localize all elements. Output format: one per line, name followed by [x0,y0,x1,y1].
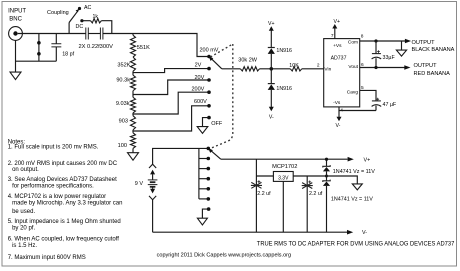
label R2 551K [137,45,150,51]
svg-text:6. When AC coupled, low freque: 6. When AC coupled, low frequency cutoff [8,236,120,242]
pin number 5 [361,85,364,91]
svg-text:OUTPUT: OUTPUT [412,40,436,46]
label Z1 1N4741 Vz 11V [333,169,375,175]
label D1 1N916 [276,48,292,54]
zener Z1 1N4741 [323,165,330,181]
svg-text:+Vs: +Vs [333,43,342,49]
svg-text:-Vs: -Vs [333,100,341,106]
svg-text:90.3k: 90.3k [116,78,130,84]
svg-text:3. See Analog Devices AD737 Da: 3. See Analog Devices AD737 Datasheet [8,177,117,183]
label C7 2.2 uf [309,191,323,197]
label R5 9.03k [116,101,130,107]
svg-text:V+: V+ [364,158,371,164]
label C6 2.2 uf [257,191,271,197]
label U2 3.3V [278,175,289,181]
svg-text:is 1.5 Hz.: is 1.5 Hz. [12,243,37,249]
notes text block [8,139,123,261]
svg-text:V+: V+ [268,21,275,27]
pin number 8 [361,34,364,40]
pin number 6 [361,62,364,68]
contact 2V [207,67,211,71]
label OUTPUT BLACK [412,40,455,53]
connector J1 BNC [9,27,23,41]
wire OFF to ground [203,118,210,127]
wire stub S2b 3 [199,167,210,171]
resistor R8 30k 2W [240,67,259,71]
switch S2b arm [208,148,221,159]
wire 30k to junction [260,68,291,70]
svg-text:551K: 551K [137,45,150,51]
wire pin8 COM out [360,40,406,42]
resistor R4 90.3k [131,73,136,91]
wire stub S2b 5 [199,187,210,191]
svg-text:BNC: BNC [9,16,22,22]
ground divider [128,153,139,161]
capacitor C6 2.2uf input [251,180,262,188]
label V- rail [362,230,367,236]
svg-text:Com: Com [348,40,358,46]
svg-text:1N916: 1N916 [276,48,292,54]
svg-text:6: 6 [361,62,364,68]
label R4 90.3k [116,78,130,84]
resistor R7 100 [131,131,136,148]
label pin -Vs [333,100,341,106]
pin number 7 [331,33,334,39]
junction dot rail zener [325,158,328,161]
svg-text:9 V: 9 V [135,181,144,187]
svg-text:Vin: Vin [324,67,331,73]
wire stub S2b 2 [199,157,210,161]
switch S1a pivot wire [68,23,70,34]
wire vertical with junctions [38,34,40,62]
svg-text:10K: 10K [289,63,299,69]
svg-text:200V: 200V [192,87,205,93]
svg-text:100: 100 [118,143,127,149]
label DC [76,24,84,30]
arrow black banana [405,39,411,44]
junction dot B [37,52,41,56]
svg-text:1. Full scale input is 200 mv: 1. Full scale input is 200 mv RMS. [8,145,99,151]
wire regulator input branch [256,175,273,177]
label AC [84,5,92,11]
switch S1a arm [69,9,79,23]
svg-text:V+: V+ [334,19,341,25]
node tap 600V wire [133,106,209,131]
svg-text:2X 0.22f300V: 2X 0.22f300V [79,44,114,50]
wire output cap drop [306,176,308,232]
wire V+ rail [221,158,348,160]
node tap 20V wire [133,80,209,95]
svg-text:BLACK BANANA: BLACK BANANA [412,47,455,53]
contact S2b OFF [207,207,211,211]
svg-text:2: 2 [317,62,320,68]
label C1 18 pf [62,52,74,58]
svg-text:30k 2W: 30k 2W [238,58,257,64]
wire main to divider and 200mV [103,34,209,57]
svg-text:1k: 1k [93,14,99,20]
svg-text:18 pf: 18 pf [62,52,74,58]
svg-text:MCP1702: MCP1702 [272,164,297,170]
label pin Vin [324,67,331,73]
wire pin6 Vout out [360,67,405,69]
ground output COM [396,41,406,56]
svg-text:V-: V- [269,114,274,120]
wire zener column top [326,159,328,166]
node tap 200V wire [133,92,209,114]
label C5 47uF [383,102,397,108]
op-amp U1 AD737 body [324,39,360,107]
wire stub S2b 6 [199,197,210,201]
svg-text:AC: AC [84,5,92,11]
wire battery top rail [153,148,209,164]
wire regulator gnd pin [282,181,284,232]
wire pin4 -Vs [339,107,376,111]
svg-text:9.03k: 9.03k [116,101,130,107]
junction dot zener mid [325,175,328,178]
svg-text:8: 8 [361,34,364,40]
svg-text:352K: 352K [117,62,130,68]
svg-text:20V: 20V [195,75,205,81]
junction dot Vout cap [374,66,377,69]
svg-text:made by Microchip. Any 3.3 reg: made by Microchip. Any 3.3 regulator can [12,200,122,206]
svg-text:2.2 uf: 2.2 uf [309,191,323,197]
capacitor C4 33uF [372,41,382,68]
label 20V [195,75,205,81]
label R1 1k [93,14,99,20]
svg-text:DC: DC [76,24,84,30]
svg-text:copyright 2011 Dick Cappels w: copyright 2011 Dick Cappels www.projects… [157,253,292,259]
arrow V- rail [347,230,353,235]
wire BNC to coupling [18,33,86,35]
wire pin5 Cavg [360,90,376,101]
label Z2 1N4741 Vz 11V [331,196,373,202]
label 2V [195,63,202,69]
svg-text:V-: V- [362,230,367,236]
label V- clamp [269,114,274,120]
diode D2 1N916 [268,69,275,90]
label U2 MCP1702 [272,164,297,170]
caption title [257,240,455,247]
svg-text:903: 903 [119,119,128,125]
resistor R1 1k [91,19,102,23]
resistor R3 352K [131,57,136,71]
label OFF [211,121,223,127]
contact 200V [207,90,211,94]
svg-text:4. MCP1702 is a low power regu: 4. MCP1702 is a low power regulator [8,194,106,200]
svg-text:V-: V- [336,123,341,129]
wire pin4 V- arrow [337,111,342,122]
pin number 4 [340,108,343,114]
capacitor C7 2.2uf output [302,181,313,189]
capacitor C5 47uF [372,98,382,111]
wire V- rail [153,231,347,233]
svg-text:Cavg: Cavg [347,90,359,96]
switch S2b bus [198,148,200,199]
svg-text:200 mV: 200 mV [200,48,219,54]
contact 600V [207,104,211,108]
label R7 100 [118,143,127,149]
svg-text:on output.: on output. [12,167,39,173]
svg-text:3.3V: 3.3V [278,175,289,181]
label pin +Vs [333,43,342,49]
switch S2a arm [209,56,222,69]
svg-text:for performance specifications: for performance specifications. [12,184,94,190]
wire arm to 30k [222,68,241,70]
svg-text:5. Input impedance is 1 Meg Oh: 5. Input impedance is 1 Meg Ohm shunted [8,219,121,225]
junction dot A [37,41,41,45]
svg-text:be used.: be used. [12,209,35,215]
diode D1 1N916 [268,48,275,69]
ground S2b OFF [197,218,207,225]
label Coupling [47,10,69,16]
label C4 33uF [383,55,396,61]
label V+ pin7 [334,19,341,25]
label 200V [192,87,205,93]
label 200 mV [200,48,219,54]
svg-text:1N4741 Vz = 11V: 1N4741 Vz = 11V [333,169,375,175]
label C2 C3 2X 0.22f300V [79,44,114,50]
svg-text:33µF: 33µF [383,55,396,61]
label V- pin4 [336,123,341,129]
label V+ rail [364,158,371,164]
label pin Vout [348,64,358,70]
wire 10K to pin2 [302,68,324,70]
svg-text:AD737: AD737 [331,55,347,61]
svg-text:Vout: Vout [348,64,358,70]
svg-text:TRUE RMS TO DC ADAPTER FOR DVM: TRUE RMS TO DC ADAPTER FOR DVM USING ANA… [257,240,455,247]
ground zener mid [352,184,362,190]
svg-text:RED BANANA: RED BANANA [414,71,451,77]
svg-text:Coupling: Coupling [47,10,69,16]
resistor R6 903 [131,114,136,130]
wire S2b OFF ground [202,209,208,218]
arrow V+ rail [348,157,354,162]
connector J1 INPUT BNC label [8,8,26,22]
svg-text:2V: 2V [195,63,202,69]
contact 20V [207,78,211,82]
wire pin7 V+ [332,24,337,39]
junction dot COM cap [374,39,377,42]
label pin Com [348,40,358,46]
wire zener mid to ground [327,176,358,184]
label pin Cavg [347,90,359,96]
svg-text:7: 7 [331,33,334,39]
wire chain to ground [132,148,134,152]
wire bypass to main [101,21,111,34]
svg-text:OUTPUT: OUTPUT [414,63,438,69]
label OUTPUT RED [414,63,451,77]
label R8 30k 2W [238,58,257,64]
node tap 2V wire [133,69,209,73]
svg-text:2.2 uf: 2.2 uf [257,191,271,197]
arrow red banana [404,65,410,70]
contact 200mV [207,55,211,59]
svg-text:1N4741 Vz = 11V: 1N4741 Vz = 11V [331,196,373,202]
label R3 352K [117,62,130,68]
svg-text:7. Maximum input 600V RMS: 7. Maximum input 600V RMS [8,255,86,261]
wire input bottom [16,60,57,62]
wire DC to R bypass [82,20,91,22]
label U1 AD737 [331,55,347,61]
battery B1 9V [148,164,158,232]
label V+ clamp [268,21,275,27]
svg-text:2. 200 mV RMS input causes 200: 2. 200 mV RMS input causes 200 mv DC [8,161,118,167]
svg-text:by 20 pf.: by 20 pf. [12,225,35,231]
wire regulator input drop [255,159,257,232]
label R9 10K [289,63,299,69]
svg-text:600V: 600V [194,99,207,105]
contact DC [80,19,83,22]
label 600V [194,99,207,105]
wire clamp up [269,26,274,47]
resistor R5 9.03k [131,95,136,113]
wire stub S2b 4 [199,177,210,181]
ground OFF [197,127,208,134]
wire clamp down [269,90,274,111]
resistor R2 551K [131,34,136,58]
caption copyright [157,253,292,259]
resistor R9 10K [290,67,302,71]
contact S2b 1 [207,147,211,151]
ground input [10,72,21,80]
contact OFF [207,116,211,120]
wire regulator output [293,175,326,177]
capacitor C1 18pf [51,34,61,62]
svg-text:1N916: 1N916 [276,86,292,92]
zener Z2 1N4741 [323,180,330,233]
label R6 903 [119,119,128,125]
junction dot clamp [270,67,274,71]
svg-text:47 µF: 47 µF [383,102,397,108]
switch gang dashed link [211,44,233,148]
pin number 2 [317,62,320,68]
svg-text:INPUT: INPUT [8,8,26,14]
label D2 1N916 [276,86,292,92]
regulator U2 MCP1702 body [273,172,293,182]
contact AC [78,7,81,10]
capacitor C2 C3 0.22uF series [86,28,103,40]
wire BNC shield down [15,40,17,72]
label B1 9 V [135,181,144,187]
svg-text:OFF: OFF [211,121,223,127]
